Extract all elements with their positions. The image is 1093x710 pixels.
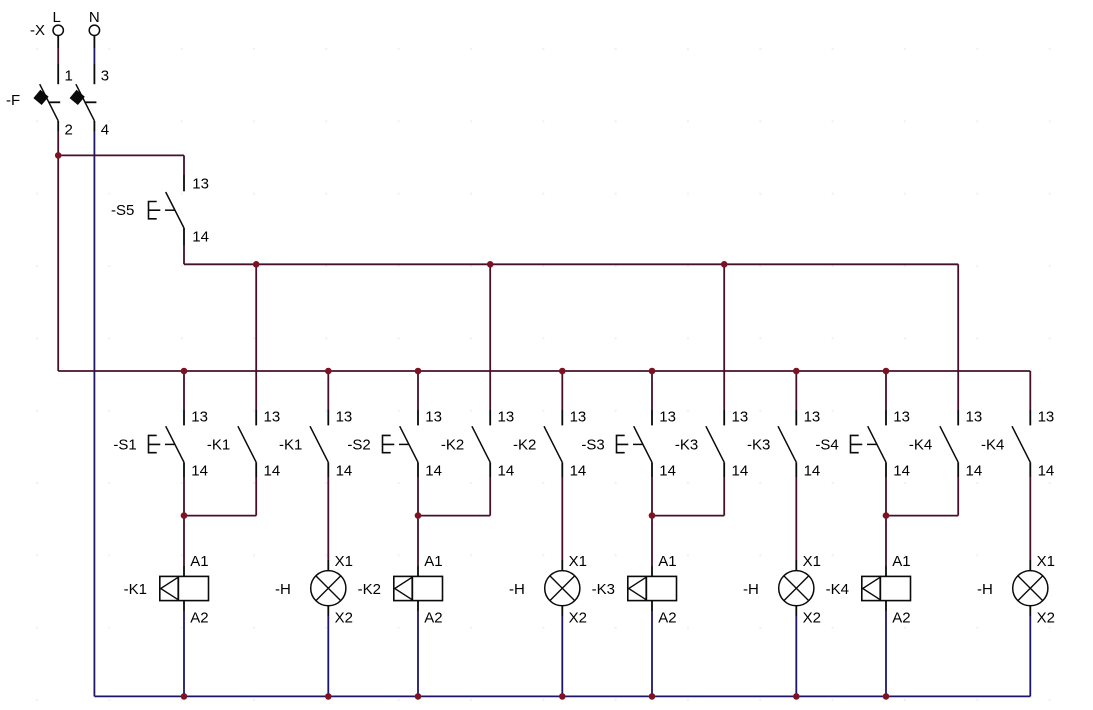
svg-text:14: 14 — [893, 463, 910, 480]
svg-text:13: 13 — [966, 408, 983, 425]
svg-text:A1: A1 — [190, 553, 208, 570]
svg-text:-K1: -K1 — [124, 581, 147, 598]
svg-text:-S4: -S4 — [815, 436, 838, 453]
svg-text:13: 13 — [732, 408, 749, 425]
svg-text:2: 2 — [65, 122, 73, 139]
svg-text:1: 1 — [65, 68, 73, 85]
svg-text:A2: A2 — [658, 609, 676, 626]
svg-text:14: 14 — [1038, 463, 1055, 480]
svg-text:14: 14 — [191, 463, 208, 480]
svg-text:-K4: -K4 — [826, 581, 849, 598]
svg-text:A2: A2 — [424, 609, 442, 626]
svg-text:13: 13 — [498, 408, 515, 425]
svg-text:A2: A2 — [190, 609, 208, 626]
svg-text:-H: -H — [977, 581, 993, 598]
svg-text:X2: X2 — [569, 609, 587, 626]
svg-text:X2: X2 — [803, 609, 821, 626]
svg-text:-K2: -K2 — [513, 436, 536, 453]
svg-text:-F: -F — [6, 92, 20, 109]
svg-text:-H: -H — [275, 581, 291, 598]
svg-text:A1: A1 — [892, 553, 910, 570]
svg-text:-S5: -S5 — [111, 202, 134, 219]
svg-text:14: 14 — [336, 463, 353, 480]
svg-text:13: 13 — [264, 408, 281, 425]
svg-text:-K1: -K1 — [207, 436, 230, 453]
svg-text:13: 13 — [1038, 408, 1055, 425]
svg-text:-H: -H — [743, 581, 759, 598]
svg-text:A1: A1 — [658, 553, 676, 570]
svg-text:14: 14 — [659, 463, 676, 480]
svg-text:X2: X2 — [335, 609, 353, 626]
svg-text:A2: A2 — [892, 609, 910, 626]
svg-text:-K4: -K4 — [909, 436, 932, 453]
svg-text:14: 14 — [425, 463, 442, 480]
svg-text:-K4: -K4 — [981, 436, 1004, 453]
svg-text:13: 13 — [336, 408, 353, 425]
svg-text:14: 14 — [804, 463, 821, 480]
svg-text:-K3: -K3 — [592, 581, 615, 598]
svg-text:-S1: -S1 — [113, 436, 136, 453]
svg-text:-S2: -S2 — [347, 436, 370, 453]
svg-text:13: 13 — [192, 176, 209, 193]
svg-text:X1: X1 — [803, 553, 821, 570]
svg-text:13: 13 — [659, 408, 676, 425]
svg-text:-K3: -K3 — [747, 436, 770, 453]
svg-text:4: 4 — [101, 122, 109, 139]
svg-text:-K1: -K1 — [279, 436, 302, 453]
svg-text:14: 14 — [498, 463, 515, 480]
svg-text:N: N — [89, 9, 100, 26]
svg-text:14: 14 — [966, 463, 983, 480]
svg-text:A1: A1 — [424, 553, 442, 570]
svg-text:13: 13 — [191, 408, 208, 425]
svg-text:14: 14 — [732, 463, 749, 480]
svg-text:13: 13 — [804, 408, 821, 425]
svg-text:14: 14 — [570, 463, 587, 480]
svg-text:14: 14 — [264, 463, 281, 480]
svg-text:-K3: -K3 — [675, 436, 698, 453]
svg-text:13: 13 — [570, 408, 587, 425]
svg-text:X2: X2 — [1037, 609, 1055, 626]
svg-text:3: 3 — [101, 68, 109, 85]
svg-text:13: 13 — [425, 408, 442, 425]
svg-text:-K2: -K2 — [441, 436, 464, 453]
svg-text:-K2: -K2 — [358, 581, 381, 598]
svg-text:-S3: -S3 — [581, 436, 604, 453]
svg-text:X1: X1 — [1037, 553, 1055, 570]
svg-text:X1: X1 — [569, 553, 587, 570]
svg-text:14: 14 — [192, 229, 209, 246]
svg-text:X1: X1 — [335, 553, 353, 570]
svg-text:13: 13 — [893, 408, 910, 425]
svg-text:-H: -H — [509, 581, 525, 598]
svg-text:-X: -X — [30, 22, 45, 39]
svg-text:L: L — [53, 9, 61, 26]
